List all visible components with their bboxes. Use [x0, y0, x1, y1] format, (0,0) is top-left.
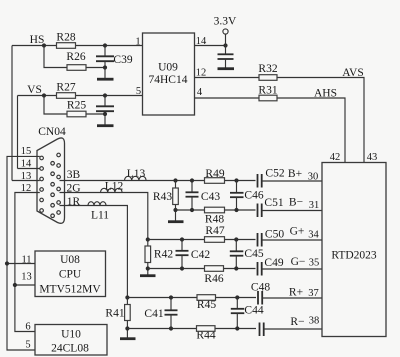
node junction R42 bottom / G- line [146, 266, 150, 270]
svg-text:R27: R27 [56, 82, 75, 94]
node junction C44 bottom [235, 326, 239, 330]
wire G+ line [148, 239, 256, 241]
svg-text:R41: R41 [105, 308, 124, 320]
svg-text:31: 31 [309, 200, 320, 211]
IC U08 CPU MTV512MV [35, 251, 106, 297]
svg-text:C44: C44 [244, 305, 263, 317]
wire U08 pin 13 [15, 284, 35, 286]
node junction 3.3V [223, 43, 227, 47]
svg-text:C49: C49 [264, 257, 283, 269]
connector pin circles column 3 [57, 153, 61, 214]
node junction C44 top [235, 295, 239, 299]
node junction B line / R43 [173, 178, 177, 182]
node junction R43 bottom / B- line [173, 208, 177, 212]
svg-text:CN04: CN04 [38, 126, 66, 138]
svg-text:5: 5 [136, 86, 141, 97]
node junction C43 bottom [190, 208, 194, 212]
svg-text:35: 35 [309, 258, 320, 269]
ground under 3.3V cap [218, 67, 235, 70]
svg-text:CPU: CPU [59, 269, 82, 281]
wire HS vertical down to CN04 pin 13 [11, 46, 13, 181]
node junction R line / R41 [125, 295, 129, 299]
svg-text:74HC14: 74HC14 [149, 74, 188, 86]
wire CN04 pin 12 down to U08/U10 [15, 193, 40, 332]
ground under R43 [168, 220, 184, 223]
svg-text:42: 42 [330, 152, 341, 163]
connector CN04 D-sub outline [37, 138, 65, 223]
connector pin circles column 1 [40, 156, 44, 212]
svg-text:B+: B+ [288, 168, 302, 180]
wire R25 branch [44, 96, 105, 115]
svg-text:30: 30 [308, 172, 319, 183]
svg-text:R+: R+ [289, 287, 303, 299]
capacitor (VS filter, unlabeled) [104, 96, 106, 107]
svg-text:C45: C45 [244, 248, 263, 260]
node junction C45 top [234, 237, 238, 241]
node junction VS [42, 93, 46, 97]
op-amp U09 74HC14 inverter box [143, 33, 195, 115]
wire CN04 pin 13 to HS [12, 180, 40, 182]
svg-text:U09: U09 [158, 62, 178, 74]
svg-text:G−: G− [291, 256, 306, 268]
svg-text:14: 14 [21, 159, 32, 170]
svg-text:5: 5 [25, 340, 30, 351]
node junction C46 top [234, 178, 238, 182]
wire C52 to chip pin 30 [262, 180, 322, 182]
svg-text:R47: R47 [205, 225, 224, 237]
svg-text:24CL08: 24CL08 [51, 343, 89, 355]
svg-text:1R: 1R [67, 196, 81, 208]
svg-text:C43: C43 [201, 191, 220, 203]
wire C49 to chip pin 35 [262, 268, 322, 270]
wire 2G through L12 down to G+ line [60, 193, 148, 240]
IC RTD2023 [322, 163, 386, 337]
svg-text:HS: HS [30, 34, 45, 46]
node junction C41 bottom [169, 326, 173, 330]
node junction pin 13 [13, 283, 17, 287]
wire CN04 pin 14 to VS [18, 168, 40, 170]
svg-text:C46: C46 [244, 190, 263, 202]
wire to chip pin 38 [264, 328, 322, 330]
wire CN04 pin 15 down to U10 pin 5 [7, 156, 40, 350]
wire U08 pin 11 [7, 263, 35, 265]
svg-text:R48: R48 [205, 214, 224, 226]
svg-text:4: 4 [197, 87, 203, 98]
capacitor (3.3V decoupling) [225, 46, 227, 55]
svg-text:R25: R25 [67, 100, 86, 112]
wire VS horizontal to U09 pin 5 [18, 95, 144, 97]
svg-text:C41: C41 [144, 308, 163, 320]
node A junction HS [42, 43, 46, 47]
svg-text:L11: L11 [91, 210, 109, 222]
node junction pin 11 [5, 261, 9, 265]
node junction G line / R42 [146, 237, 150, 241]
svg-text:AVS: AVS [342, 67, 364, 79]
wire R- line [127, 328, 256, 330]
node junction C43 top [190, 178, 194, 182]
svg-text:38: 38 [309, 316, 320, 327]
svg-text:G+: G+ [290, 226, 305, 238]
wire U09 pin 14 to 3.3V node [195, 45, 226, 47]
svg-text:R43: R43 [153, 191, 172, 203]
svg-text:R26: R26 [66, 51, 85, 63]
svg-text:AHS: AHS [314, 88, 337, 100]
wire 1R through L11 down to R+ line [60, 206, 128, 298]
wire VS vertical down to CN04 pin 14 [17, 96, 19, 169]
node junction C42 bottom [180, 266, 184, 270]
ground under R41 [120, 337, 136, 340]
svg-text:R46: R46 [204, 273, 223, 285]
svg-text:R28: R28 [56, 32, 75, 44]
svg-text:B−: B− [289, 197, 303, 209]
wire to ground [104, 114, 106, 125]
node junction cap / R25 [103, 112, 107, 116]
svg-text:34: 34 [308, 230, 319, 241]
node junction C42 top [180, 237, 184, 241]
node junction C41 top [169, 295, 173, 299]
svg-text:13: 13 [21, 272, 32, 283]
svg-text:6: 6 [25, 322, 30, 333]
wire C51 to chip pin 31 [262, 210, 322, 212]
svg-text:L13: L13 [127, 168, 146, 180]
svg-text:C48: C48 [251, 282, 270, 294]
svg-text:VS: VS [27, 84, 42, 96]
ground under R42 [140, 274, 156, 277]
ground under VS cap [97, 124, 114, 127]
svg-text:U10: U10 [61, 329, 81, 341]
svg-text:R−: R− [290, 316, 304, 328]
wire to ground [104, 68, 106, 79]
svg-text:C39: C39 [113, 54, 132, 66]
node junction R28 output / C39 [103, 43, 107, 47]
capacitor (series, R- line) [259, 323, 261, 337]
wire B- line [176, 209, 256, 211]
node junction C46 bottom [234, 208, 238, 212]
wire R26 branch [44, 46, 105, 68]
node junction R41 bottom / R- line [125, 326, 129, 330]
ground under C39 [97, 78, 114, 81]
svg-text:C52: C52 [265, 168, 284, 180]
IC U10 24CL08 [35, 325, 107, 356]
node junction C45 bottom [234, 266, 238, 270]
svg-text:C42: C42 [191, 249, 210, 261]
svg-text:C50: C50 [265, 229, 284, 241]
svg-text:37: 37 [308, 288, 319, 299]
svg-text:MTV512MV: MTV512MV [39, 284, 101, 296]
wire 3B to B+ line [60, 180, 256, 182]
svg-text:U08: U08 [60, 254, 80, 266]
wire C50 to chip pin 34 [262, 239, 322, 241]
wire U09 pin 12 to R32 and AVS [195, 78, 365, 163]
svg-text:RTD2023: RTD2023 [331, 250, 377, 262]
wire G- line [148, 268, 256, 270]
svg-text:R42: R42 [154, 249, 173, 261]
svg-text:3.3V: 3.3V [214, 16, 237, 28]
connector pin circles column 2 [51, 162, 55, 218]
svg-text:3B: 3B [67, 169, 81, 181]
svg-text:43: 43 [367, 152, 378, 163]
wire C48 to chip pin 37 [262, 297, 322, 299]
node junction C39 / R26 [103, 65, 107, 69]
node junction R27 output [103, 93, 107, 97]
wire HS horizontal to U09 pin 1 [12, 45, 143, 47]
svg-text:C51: C51 [264, 197, 283, 209]
wire U09 pin 4 to R31 and AHS [195, 98, 346, 163]
wire R+ line [127, 297, 256, 299]
svg-text:12: 12 [196, 68, 207, 79]
svg-text:15: 15 [21, 146, 32, 157]
svg-text:R32: R32 [258, 63, 277, 75]
svg-text:1: 1 [135, 37, 140, 48]
